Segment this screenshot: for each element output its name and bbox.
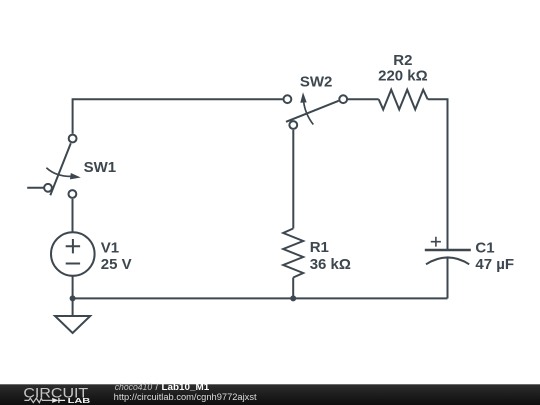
wire: SW2 lower terminal down to R1 (292, 130, 294, 229)
voltage source V1 (51, 232, 95, 276)
svg-text:R1: R1 (310, 239, 329, 256)
resistor R2 (379, 90, 428, 110)
svg-text:Lab10_M1: Lab10_M1 (162, 382, 210, 392)
svg-text:25 V: 25 V (101, 256, 132, 273)
wire: top-left corner, V1 branch to SW2 left terminal (73, 99, 283, 133)
footer bar (0, 384, 540, 405)
svg-text:V1: V1 (101, 239, 119, 256)
svg-text:SW2: SW2 (300, 73, 333, 90)
junction dot at R1/bottom rail (290, 295, 296, 301)
wire: R2 to C1 top, right corner (428, 99, 448, 249)
svg-text:LAB: LAB (68, 396, 92, 405)
wire: SW1 common to V1 top (72, 199, 74, 232)
wire: V1 bottom to junction (72, 276, 74, 299)
wire: SW1 NC stub (27, 187, 44, 189)
switch SW2 (284, 92, 348, 129)
junction dot at V1/ground (70, 295, 76, 301)
logo resistor zigzag (24, 398, 52, 402)
svg-text:choco410: choco410 (115, 382, 153, 392)
svg-text:47 µF: 47 µF (475, 256, 514, 273)
ground (55, 298, 90, 333)
resistor R1 (283, 229, 303, 278)
svg-text:220 kΩ: 220 kΩ (378, 67, 428, 84)
capacitor C1 (425, 237, 471, 264)
wire: R1 bottom to bottom rail (292, 278, 294, 299)
svg-text:R2: R2 (393, 52, 412, 69)
svg-text:SW1: SW1 (84, 159, 117, 176)
logo diode (52, 398, 65, 403)
svg-text:http://circuitlab.com/cgnh9772: http://circuitlab.com/cgnh9772ajxst (114, 392, 257, 402)
wire: C1 bottom plate to bottom rail (447, 259, 449, 299)
svg-text:36 kΩ: 36 kΩ (310, 256, 351, 273)
wire: bottom rail (73, 297, 448, 299)
wire: SW2 right terminal to R2 (348, 98, 379, 100)
switch SW1 (44, 135, 81, 198)
svg-text:C1: C1 (475, 240, 494, 257)
